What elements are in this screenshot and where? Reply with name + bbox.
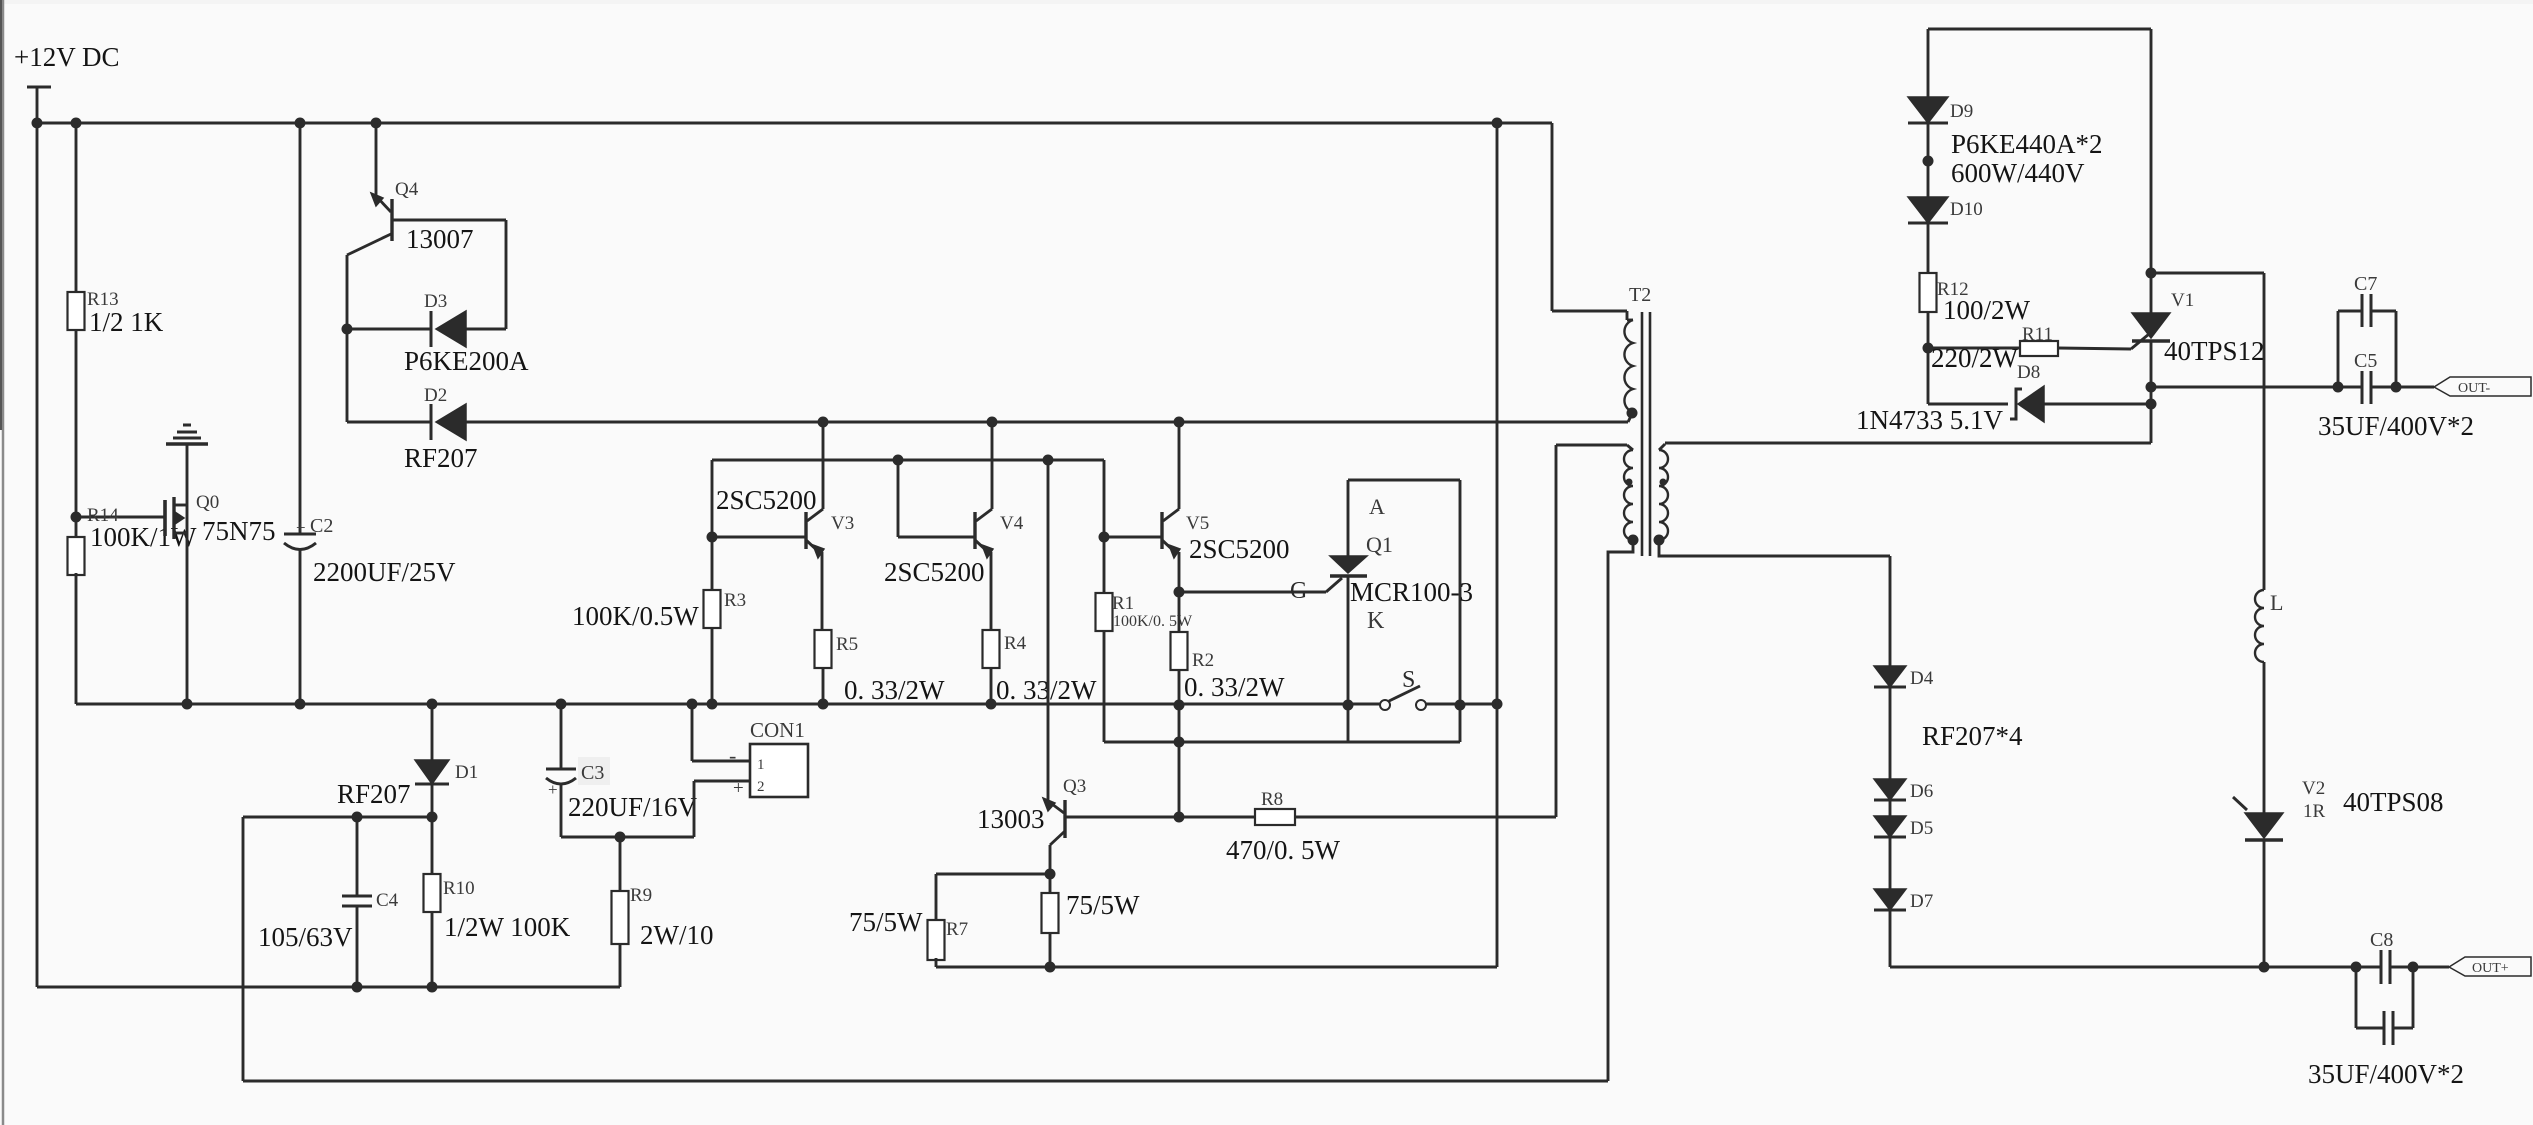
svg-text:T2: T2 (1629, 284, 1651, 306)
label CON1 (750, 718, 805, 742)
value R8 470/0.5W (1226, 835, 1341, 865)
value C2 2200UF/25V (313, 557, 456, 587)
value R9 2W/10 (640, 920, 714, 950)
svg-text:600W/440V: 600W/440V (1951, 158, 2085, 188)
label R10 (443, 878, 475, 899)
node drive line V5 (1174, 417, 1185, 428)
svg-text:13003: 13003 (977, 804, 1045, 834)
value V1 40TPS12 (2164, 336, 2265, 366)
label D7 (1910, 891, 1933, 912)
wire R2 node to box bottom (1178, 705, 1181, 742)
value caps 35UF/400V*2 upper (2318, 411, 2474, 441)
svg-text:75/5W: 75/5W (849, 907, 923, 937)
label C3 (581, 762, 604, 784)
wire drive line y422 (466, 412, 1633, 422)
svg-text:L: L (2270, 590, 2283, 615)
label Q4 (395, 179, 419, 200)
resistor R3 (704, 590, 721, 628)
capacitor C2 2200UF/25V (284, 534, 316, 550)
value D2 RF207 (404, 443, 478, 473)
connector CON1 (750, 744, 808, 797)
label C3 highlight (578, 757, 610, 785)
wire D5 to D7 (1889, 837, 1892, 889)
wire D1 lower (431, 784, 434, 874)
capacitor C8 (2381, 950, 2390, 984)
wire R3 lower (711, 628, 714, 704)
value R12 100/2W (1943, 295, 2031, 325)
svg-text:Q4: Q4 (395, 179, 419, 200)
label C4 (376, 890, 399, 911)
svg-text:S: S (1402, 667, 1415, 693)
box V1 right branch (2151, 273, 2264, 590)
label V2 1R (2303, 801, 2326, 822)
value C3 220UF/16V (568, 792, 698, 822)
label T2 (1629, 284, 1651, 306)
value Q4 13007 (406, 224, 474, 254)
svg-text:1: 1 (757, 757, 765, 773)
node rail CON1 branch (687, 699, 698, 710)
svg-text:220UF/16V: 220UF/16V (568, 792, 698, 822)
wire V2 cathode (2263, 840, 2266, 967)
node rail D1 branch (427, 699, 438, 710)
node gate junction (71, 512, 82, 523)
transformer T2 primary winding (1624, 320, 1633, 412)
value C4 105/63V (258, 922, 353, 952)
node rail C3 branch (556, 699, 567, 710)
thyristor V2 40TPS08 (2233, 797, 2283, 840)
wire y817 line (243, 816, 432, 819)
svg-text:100K/0. 5W: 100K/0. 5W (1113, 613, 1193, 630)
svg-text:2W/10: 2W/10 (640, 920, 714, 950)
wire V1 cathode (2150, 341, 2153, 443)
label R14 (87, 505, 119, 526)
value R1 100K/0.5W (1113, 613, 1193, 630)
label C7 (2354, 273, 2377, 295)
wire gate line (76, 516, 166, 519)
node V3 base R3 (707, 532, 718, 543)
wire D4 chain upper (1889, 556, 1892, 666)
svg-text:0. 33/2W: 0. 33/2W (996, 675, 1097, 705)
wire lower primary bottom lead (1608, 541, 1633, 1081)
wire R13 to gate node (75, 330, 78, 537)
wire CON1 pin2 riser (693, 781, 696, 837)
svg-text:R2: R2 (1192, 650, 1214, 671)
wire D10 to R12 (1927, 223, 1930, 273)
svg-text:2SC5200: 2SC5200 (884, 557, 985, 587)
wire C3 bottom line (561, 836, 694, 839)
capacitor C4 105/63V (342, 896, 372, 906)
wire top rail (37, 122, 1552, 125)
wire Q3 base line (1065, 816, 1255, 819)
node drive line V3 (818, 417, 829, 428)
wire D1 upper (431, 704, 434, 760)
label D4 (1910, 668, 1934, 689)
node R2 ground rail (1174, 700, 1185, 711)
svg-text:2SC5200: 2SC5200 (1189, 534, 1290, 564)
transformer T2 lower primary winding (1556, 445, 1633, 540)
wire V1 anode from box (2150, 29, 2153, 313)
node V1 box junction (2146, 268, 2157, 279)
wire C2 branch upper (299, 123, 302, 534)
svg-text:R7: R7 (946, 919, 968, 940)
svg-text:100K/1W: 100K/1W (90, 522, 197, 552)
svg-text:CON1: CON1 (750, 718, 805, 742)
node C5 right (2391, 382, 2402, 393)
diode D6 (1874, 779, 1906, 800)
svg-text:OUT-: OUT- (2458, 381, 2490, 396)
label Q0 (196, 492, 219, 513)
resistor R5 (815, 630, 832, 668)
transistor Q0 75N75 (165, 497, 188, 539)
value R7 75/5W (849, 907, 923, 937)
node lower primary polarity dot (1626, 479, 1633, 486)
node rail Q4 branch (371, 118, 382, 129)
svg-text:Q1: Q1 (1366, 532, 1393, 557)
wire R11 left (1928, 347, 2020, 350)
svg-text:D4: D4 (1910, 668, 1934, 689)
node R4 ground rail (986, 699, 997, 710)
wire R12 lower (1927, 312, 1930, 348)
wire C3 upper (560, 704, 563, 769)
svg-text:13007: 13007 (406, 224, 474, 254)
wire R7 top (936, 873, 1050, 876)
label Q1 (1366, 532, 1393, 557)
wire C3 lower (560, 784, 563, 837)
resistor R2 (1171, 632, 1188, 670)
label D10 (1950, 199, 1983, 220)
wire primary feed from rail (1552, 123, 1627, 320)
node primary bottom (1627, 408, 1638, 419)
wire base bus y460 (712, 459, 1104, 462)
wire R4 lower (990, 668, 993, 704)
resistor R1 (1096, 593, 1113, 631)
wire C7 bracket (2338, 311, 2396, 387)
wire bottom-left horizontal (37, 986, 620, 989)
wire D7 to output line (1889, 910, 1892, 967)
node V1 D8 junction (2146, 399, 2157, 410)
svg-text:+: + (548, 780, 558, 799)
label D8 (2017, 362, 2040, 383)
svg-text:P6KE440A*2: P6KE440A*2 (1951, 129, 2103, 159)
node secondary bottom (1654, 535, 1665, 546)
diode D4 (1874, 666, 1906, 687)
wire D4 to D6 (1889, 687, 1892, 779)
label D3 (424, 291, 447, 312)
label C5 (2354, 350, 2377, 372)
svg-text:V3: V3 (831, 513, 854, 534)
transformer T2 core (1642, 312, 1650, 556)
svg-text:R4: R4 (1004, 633, 1027, 654)
value D3 P6KE200A (404, 346, 529, 376)
wire Q1 cathode (1347, 576, 1350, 742)
label D2 (424, 385, 447, 406)
wire R9 top link (619, 944, 622, 987)
wire CON1 pin1 (692, 704, 750, 761)
label D6 (1910, 781, 1933, 802)
node R11 junction (1923, 343, 1934, 354)
svg-text:D10: D10 (1950, 199, 1983, 220)
node rail C2 branch (295, 118, 306, 129)
node emitter resistor top (1045, 869, 1056, 880)
svg-text:V1: V1 (2171, 290, 2194, 311)
value caps 35UF/400V*2 lower (2308, 1059, 2464, 1089)
wire box bottom (1104, 741, 1460, 744)
svg-text:1R: 1R (2303, 801, 2326, 822)
svg-text:2SC5200: 2SC5200 (716, 485, 817, 515)
resistor R11 horizontal (2020, 341, 2058, 356)
scan edge artifact (1, 0, 3, 1125)
label D9 (1950, 101, 1973, 122)
label K cathode (1367, 608, 1385, 634)
wire emitter bottom line (936, 966, 1497, 969)
svg-text:R1: R1 (1112, 593, 1134, 614)
svg-text:Q0: Q0 (196, 492, 219, 513)
thyristor Q1 MCR100-3 (1330, 556, 1367, 576)
node drive line V4 (987, 417, 998, 428)
value V3 2SC5200 (716, 485, 817, 515)
value R5 0.33/2W (844, 675, 945, 705)
label R5 (836, 634, 858, 655)
wire R2 lower (1178, 670, 1181, 705)
label S (1402, 667, 1415, 693)
wire R7 upper (935, 874, 938, 920)
svg-text:RF207: RF207 (337, 779, 411, 809)
svg-text:1/2 1K: 1/2 1K (89, 307, 164, 337)
svg-text:40TPS12: 40TPS12 (2164, 336, 2265, 366)
label CON1 minus (729, 743, 736, 768)
transistor Q3 13003 (1043, 460, 1065, 874)
resistor R10 (424, 874, 441, 912)
resistor R14 (68, 537, 85, 575)
svg-text:D2: D2 (424, 385, 447, 406)
svg-text:D8: D8 (2017, 362, 2040, 383)
wire secondary top lead (1665, 442, 2151, 445)
value R10 1/2W 100K (444, 912, 571, 942)
svg-text:V5: V5 (1186, 513, 1209, 534)
value R13 1/2 1K (89, 307, 164, 337)
wire R7 lower (935, 958, 938, 967)
wire x1497 vertical (1496, 123, 1499, 967)
wire R1 lower (1103, 631, 1106, 742)
svg-text:D1: D1 (455, 762, 478, 783)
wire secondary bottom lead (1659, 541, 1890, 556)
ground symbol (166, 425, 208, 444)
svg-text:35UF/400V*2: 35UF/400V*2 (2308, 1059, 2464, 1089)
wire D9 to D10 (1927, 123, 1930, 197)
node Q3 base junction (1174, 812, 1185, 823)
svg-text:+12V DC: +12V DC (14, 42, 120, 72)
wire ground to Q0 (186, 444, 189, 704)
node V2 output junction (2259, 962, 2270, 973)
wire D2 left (347, 421, 431, 424)
svg-text:G: G (1290, 578, 1307, 604)
svg-text:C2: C2 (310, 515, 333, 537)
box snubber top (1928, 28, 2151, 31)
svg-text:D7: D7 (1910, 891, 1933, 912)
value 600W/440V (1951, 158, 2085, 188)
node V5 base R1 (1099, 532, 1110, 543)
pin 2 CON1 (757, 779, 765, 795)
label V3 (831, 513, 854, 534)
node ground rail x1497 (1492, 699, 1503, 710)
node rail x1497 top (1492, 118, 1503, 129)
wire gate line G (1179, 578, 1342, 592)
wire out plus right (2390, 966, 2449, 969)
label R8 (1261, 789, 1283, 810)
wire D8 left (1928, 348, 2008, 404)
node R5 ground rail (818, 699, 829, 710)
wire Q4 collector drop (346, 255, 349, 329)
svg-text:R10: R10 (443, 878, 475, 899)
node D9 D10 junction (1923, 156, 1934, 167)
value R3 100K/0.5W (572, 601, 699, 631)
label G (1290, 578, 1307, 604)
node rail R13 branch (71, 118, 82, 129)
label D5 (1910, 818, 1933, 839)
label C8 (2370, 929, 2393, 951)
node Q0 source rail (182, 699, 193, 710)
resistor emitter 75/5W (1042, 893, 1059, 933)
node x1179 y742 (1174, 737, 1185, 748)
wire R14 to ground rail (75, 573, 78, 704)
transformer T2 secondary winding (1659, 444, 1668, 540)
wire to Q3 base (1178, 742, 1181, 817)
node +12V rail junction (32, 118, 43, 129)
wire left loop vertical (242, 817, 245, 1081)
svg-text:D3: D3 (424, 291, 447, 312)
value R11 220/2W (1931, 343, 2019, 373)
inductor L (2255, 590, 2264, 662)
value R2 0.33/2W (1184, 672, 1285, 702)
wire Q4 base loop (392, 220, 506, 329)
label L (2270, 590, 2283, 615)
wire R11 right gate (2058, 334, 2149, 349)
node switch right rail (1455, 700, 1466, 711)
svg-text:2200UF/25V: 2200UF/25V (313, 557, 456, 587)
wire CON1 pin2 (694, 780, 750, 783)
+12V terminal stub (27, 87, 51, 123)
svg-text:C4: C4 (376, 890, 399, 911)
wire R8 right (1295, 816, 1556, 819)
value RF207*4 (1922, 721, 2023, 751)
switch S (1380, 686, 1426, 710)
wire R2 upper (1178, 592, 1181, 632)
wire L to V2 (2263, 662, 2266, 813)
svg-text:1N4733 5.1V: 1N4733 5.1V (1856, 405, 2003, 435)
node C3 line R9 (615, 832, 626, 843)
resistor R13 (68, 292, 85, 330)
label Q3 (1063, 776, 1086, 797)
svg-text:220/2W: 220/2W (1931, 343, 2019, 373)
label R12 (1937, 279, 1969, 300)
wire out minus line (2151, 386, 2362, 389)
value Q0 75N75 (202, 516, 276, 546)
terminal OUT- (2434, 377, 2531, 396)
wire ground rail left (76, 703, 1380, 706)
node emitter bottom junction (1045, 962, 1056, 973)
node C8 right (2408, 962, 2419, 973)
svg-text:R9: R9 (630, 885, 652, 906)
svg-text:75N75: 75N75 (202, 516, 276, 546)
svg-text:0. 33/2W: 0. 33/2W (1184, 672, 1285, 702)
label C3 plus (548, 780, 558, 799)
value emitter resistor 75/5W (1066, 890, 1140, 920)
zener D8 1N4733 (2010, 386, 2150, 422)
wire Q4 emitter to D2 line (346, 329, 349, 422)
svg-text:MCR100-3: MCR100-3 (1350, 577, 1473, 607)
svg-text:P6KE200A: P6KE200A (404, 346, 529, 376)
node Q4 collector D3 (342, 324, 353, 335)
node secondary polarity dot (1660, 479, 1667, 486)
transistor V3 2SC5200 (806, 422, 824, 630)
node C4 y817 (352, 812, 363, 823)
svg-text:75/5W: 75/5W (1066, 890, 1140, 920)
transistor V5 2SC5200 (1162, 422, 1180, 592)
svg-text:35UF/400V*2: 35UF/400V*2 (2318, 411, 2474, 441)
wire D6 to D5 (1889, 800, 1892, 816)
svg-text:D6: D6 (1910, 781, 1933, 802)
diode D9 (1908, 97, 1948, 123)
node lower primary bottom (1628, 535, 1639, 546)
node C2 ground rail (295, 699, 306, 710)
label R2 (1192, 650, 1214, 671)
node Q1 cathode rail (1343, 700, 1354, 711)
resistor R12 (1920, 273, 1937, 312)
svg-text:R5: R5 (836, 634, 858, 655)
node V5 emitter gate (1174, 587, 1185, 598)
label R3 (724, 590, 746, 611)
label D1 (455, 762, 478, 783)
svg-text:K: K (1367, 608, 1385, 634)
svg-text:C5: C5 (2354, 350, 2377, 372)
wire C8 bracket (2356, 967, 2413, 1028)
transistor V4 2SC5200 (975, 422, 993, 630)
resistor R7 (928, 920, 945, 960)
svg-text:R8: R8 (1261, 789, 1283, 810)
label R9 (630, 885, 652, 906)
node C5 left (2333, 382, 2344, 393)
svg-text:C7: C7 (2354, 273, 2377, 295)
node base bus V4 tap (893, 455, 904, 466)
value Q1 MCR100-3 (1350, 577, 1473, 607)
value V5 2SC5200 (1189, 534, 1290, 564)
node D1 y817 (427, 812, 438, 823)
svg-text:V2: V2 (2302, 778, 2325, 799)
thyristor V1 40TPS12 (2132, 313, 2170, 341)
label R11 (2022, 324, 2053, 345)
label V2 (2302, 778, 2325, 799)
diode D3 P6KE200A (431, 311, 466, 347)
wire V5 base (1104, 536, 1162, 539)
wire C4 lower (356, 906, 359, 987)
node base bus Q3 collector (1043, 455, 1054, 466)
value Q3 13003 (977, 804, 1045, 834)
wire V4 base (898, 460, 975, 537)
node C8 left (2351, 962, 2362, 973)
svg-text:2: 2 (757, 779, 765, 795)
box Q1 outline (1348, 480, 1460, 742)
transistor Q4 13007 (347, 123, 392, 255)
wire C4 upper (356, 817, 359, 896)
label V4 (1000, 513, 1024, 534)
svg-text:100/2W: 100/2W (1943, 295, 2031, 325)
value R14 100K/1W (90, 522, 197, 552)
capacitor C7 (2362, 294, 2371, 327)
label A anode (1369, 494, 1385, 519)
wire R13 branch upper (75, 123, 78, 292)
svg-text:1/2W 100K: 1/2W 100K (444, 912, 571, 942)
svg-text:C8: C8 (2370, 929, 2393, 951)
